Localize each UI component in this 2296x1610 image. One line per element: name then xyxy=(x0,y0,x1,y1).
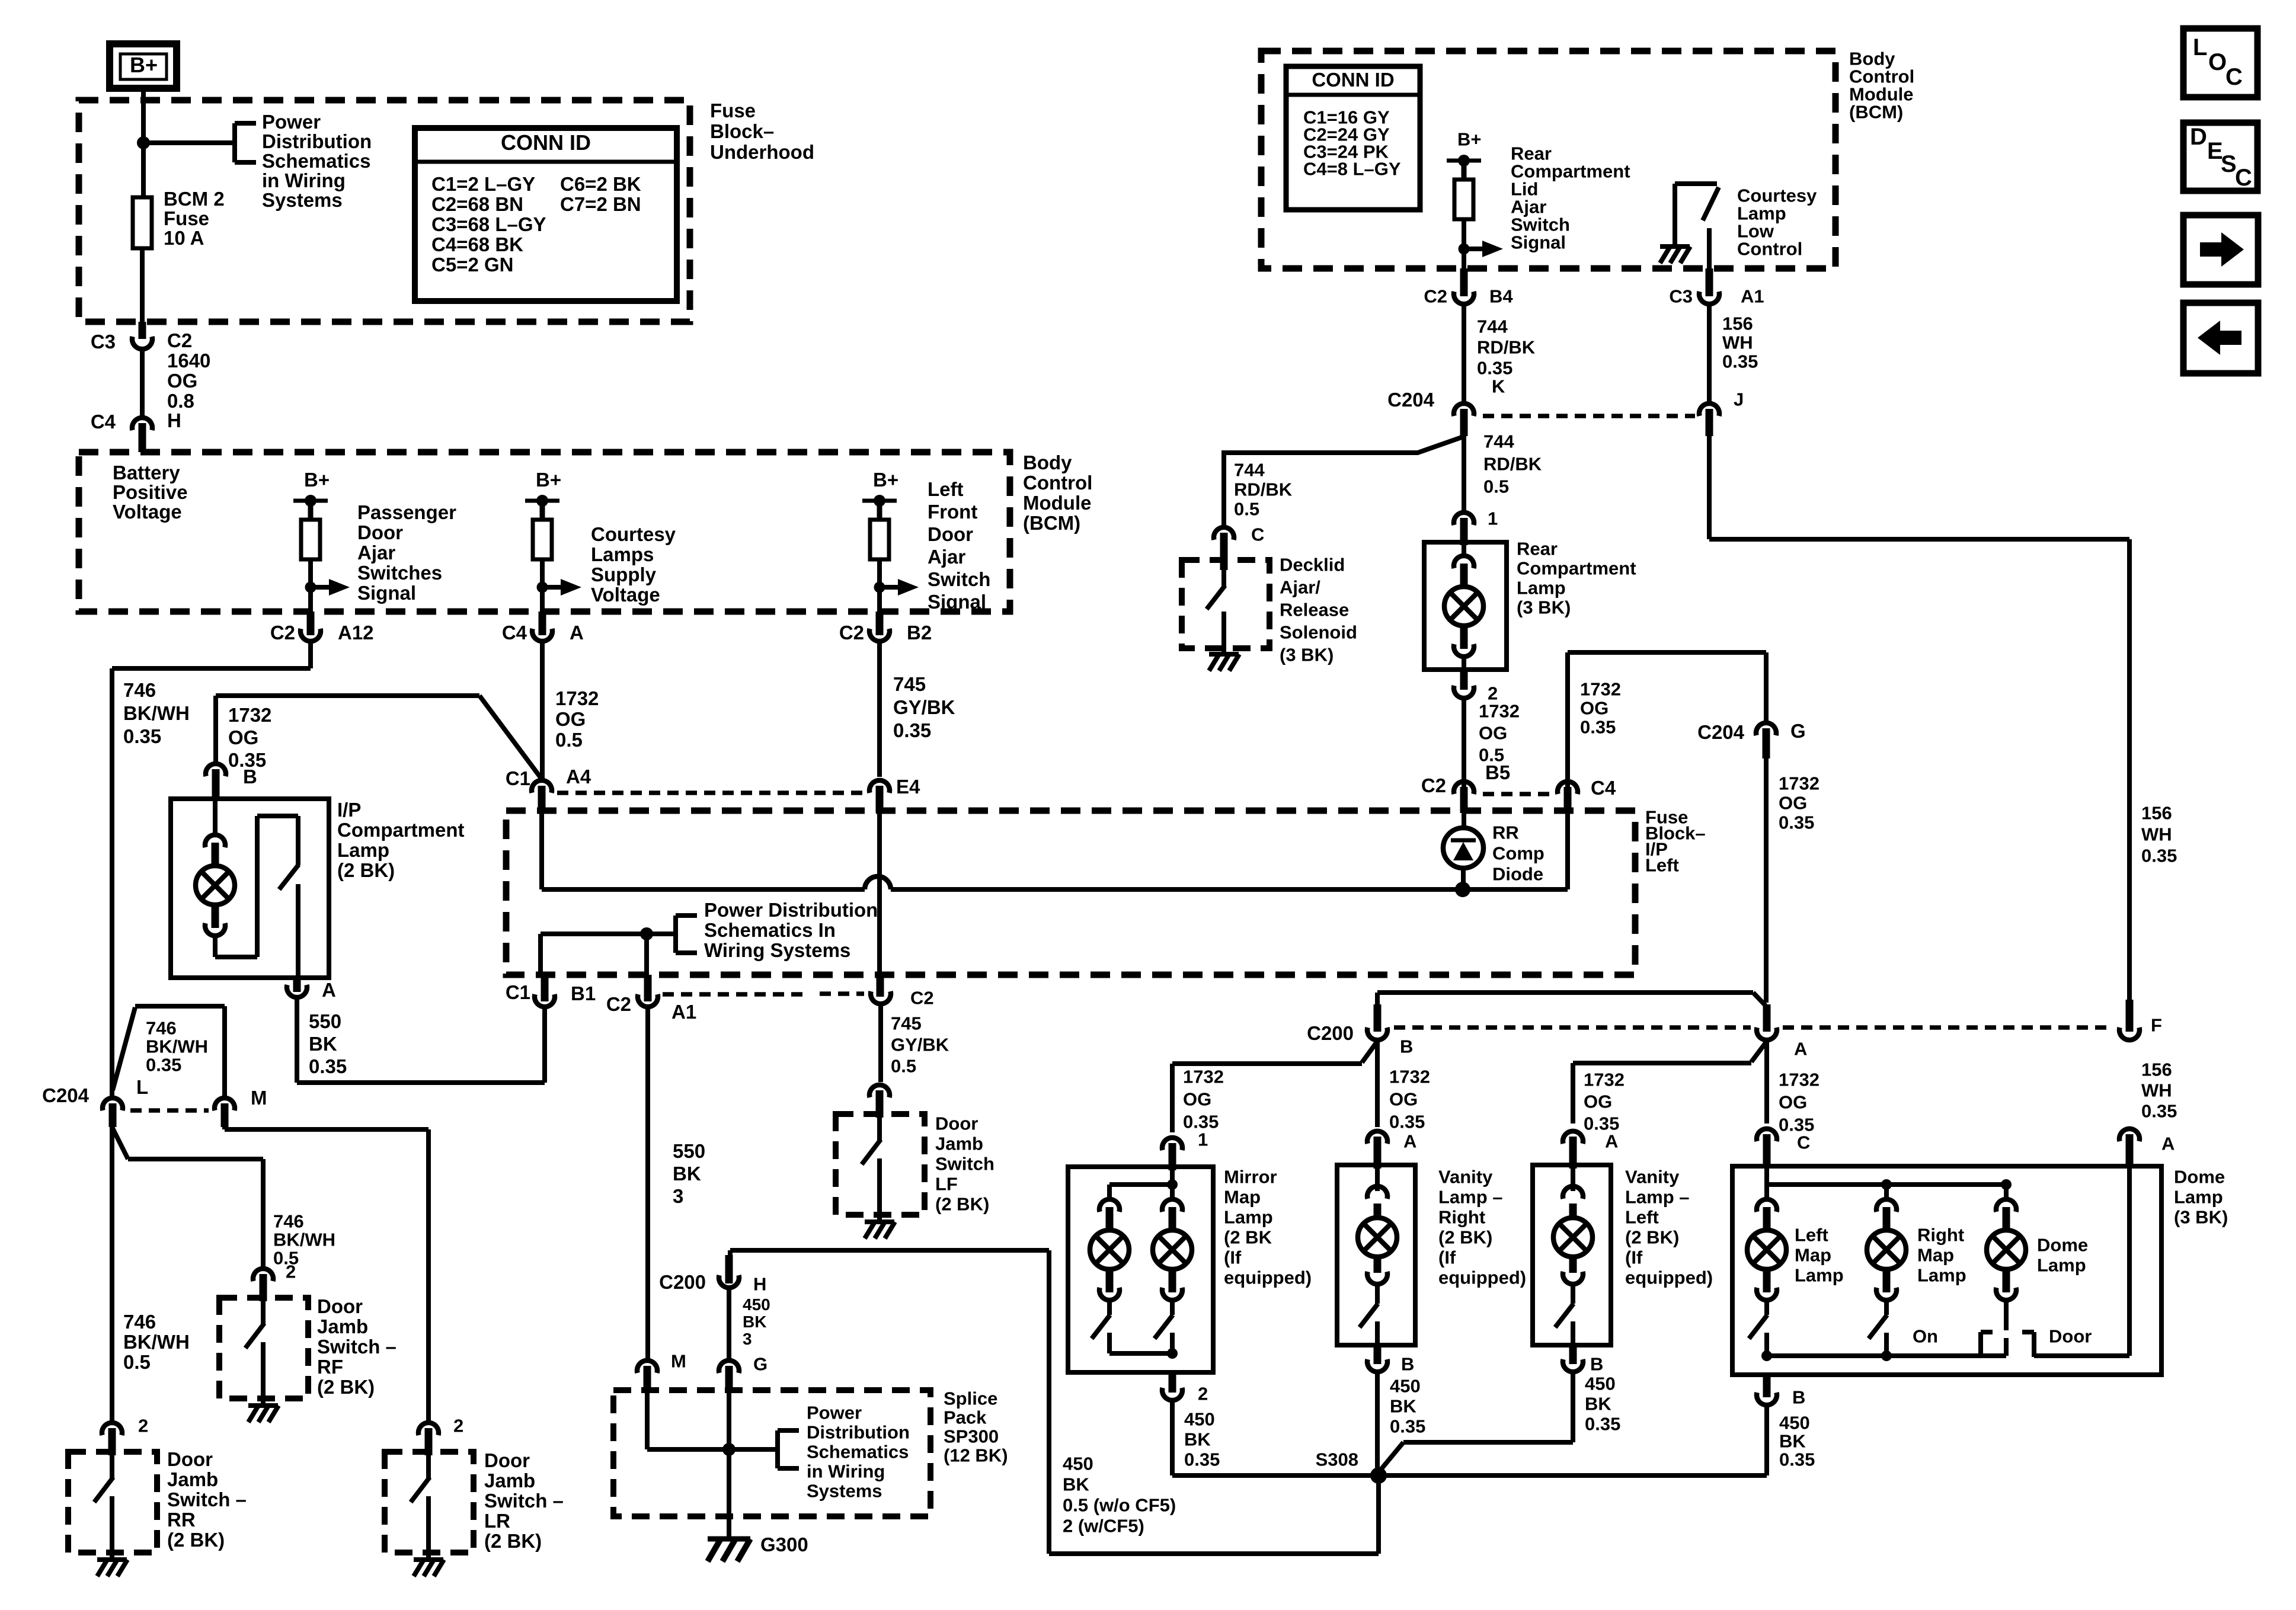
svg-text:C2: C2 xyxy=(1424,286,1447,306)
svg-text:C204: C204 xyxy=(1387,389,1435,411)
svg-text:B: B xyxy=(1400,1036,1413,1057)
svg-text:B+: B+ xyxy=(536,469,561,491)
svg-text:C2: C2 xyxy=(839,622,864,644)
svg-text:2: 2 xyxy=(138,1415,148,1436)
svg-text:C4: C4 xyxy=(1591,777,1616,799)
svg-text:A: A xyxy=(322,979,336,1001)
svg-text:H: H xyxy=(167,409,181,431)
svg-text:2: 2 xyxy=(453,1415,463,1436)
svg-text:Door: Door xyxy=(2049,1326,2092,1346)
svg-text:F: F xyxy=(2151,1014,2162,1035)
svg-text:C2: C2 xyxy=(270,622,295,644)
svg-text:S: S xyxy=(2221,151,2237,177)
svg-text:A12: A12 xyxy=(338,622,374,644)
svg-text:B1: B1 xyxy=(571,982,596,1004)
svg-text:G300: G300 xyxy=(760,1534,808,1555)
svg-text:E4: E4 xyxy=(896,776,920,798)
svg-text:C204: C204 xyxy=(42,1084,89,1106)
svg-text:2: 2 xyxy=(1198,1383,1208,1404)
svg-text:C2: C2 xyxy=(606,993,631,1015)
svg-text:C1: C1 xyxy=(506,767,530,789)
svg-text:1: 1 xyxy=(1488,508,1498,529)
svg-text:A: A xyxy=(570,622,584,644)
svg-text:2: 2 xyxy=(286,1261,296,1282)
svg-text:B+: B+ xyxy=(304,469,330,491)
svg-text:B: B xyxy=(1401,1353,1414,1374)
svg-text:C1: C1 xyxy=(506,981,530,1003)
svg-text:C: C xyxy=(2235,165,2252,191)
svg-text:G: G xyxy=(753,1353,768,1374)
svg-text:S308: S308 xyxy=(1316,1449,1358,1470)
svg-text:A1: A1 xyxy=(1741,286,1764,306)
svg-text:B: B xyxy=(1590,1353,1603,1374)
svg-text:C2: C2 xyxy=(1421,774,1446,796)
svg-text:L: L xyxy=(136,1076,148,1098)
svg-text:On: On xyxy=(1913,1326,1938,1346)
svg-text:C: C xyxy=(1251,524,1264,545)
svg-text:C: C xyxy=(1797,1132,1810,1153)
svg-text:L: L xyxy=(2193,34,2207,60)
svg-text:C4: C4 xyxy=(502,622,527,644)
svg-text:A: A xyxy=(1794,1038,1807,1059)
svg-text:156WH0.35: 156WH0.35 xyxy=(2141,802,2177,866)
svg-text:C3: C3 xyxy=(1669,286,1693,306)
svg-text:J: J xyxy=(1734,389,1744,409)
svg-text:1: 1 xyxy=(1198,1129,1208,1150)
svg-text:B: B xyxy=(1792,1387,1805,1407)
svg-text:B2: B2 xyxy=(907,622,932,644)
svg-text:M: M xyxy=(251,1087,267,1109)
svg-text:A: A xyxy=(1403,1131,1416,1151)
svg-text:C204: C204 xyxy=(1697,721,1745,743)
svg-text:CONN ID: CONN ID xyxy=(1312,69,1394,91)
svg-text:156WH0.35: 156WH0.35 xyxy=(2141,1059,2177,1121)
svg-text:A1: A1 xyxy=(671,1001,696,1023)
svg-text:O: O xyxy=(2208,49,2227,75)
svg-text:A4: A4 xyxy=(566,766,591,788)
svg-text:K: K xyxy=(1492,376,1505,396)
svg-text:B+: B+ xyxy=(1457,129,1482,149)
svg-text:DomeLamp: DomeLamp xyxy=(2037,1234,2088,1275)
svg-text:H: H xyxy=(753,1273,766,1294)
svg-text:BatteryPositiveVoltage: BatteryPositiveVoltage xyxy=(113,462,188,523)
svg-text:C3: C3 xyxy=(91,331,116,353)
svg-text:B+: B+ xyxy=(130,53,158,77)
svg-text:DomeLamp(3 BK): DomeLamp(3 BK) xyxy=(2174,1166,2228,1227)
svg-text:156WH0.35: 156WH0.35 xyxy=(1722,313,1758,372)
svg-text:M: M xyxy=(671,1350,686,1371)
svg-text:C200: C200 xyxy=(659,1271,706,1293)
svg-text:C2: C2 xyxy=(910,987,934,1008)
svg-text:C4: C4 xyxy=(91,411,116,433)
svg-text:B4: B4 xyxy=(1489,286,1513,306)
svg-text:D: D xyxy=(2190,124,2207,150)
svg-text:B+: B+ xyxy=(873,469,898,491)
svg-text:C6=2 BKC7=2 BN: C6=2 BKC7=2 BN xyxy=(560,173,641,215)
svg-text:G: G xyxy=(1790,720,1806,742)
svg-text:C: C xyxy=(2225,64,2243,90)
svg-text:A: A xyxy=(1605,1131,1618,1151)
svg-text:C200: C200 xyxy=(1307,1022,1354,1044)
svg-text:A: A xyxy=(2161,1133,2175,1154)
svg-text:C1=16 GYC2=24 GYC3=24 PKC4=8 L: C1=16 GYC2=24 GYC3=24 PKC4=8 L–GY xyxy=(1303,107,1401,179)
svg-text:CONN ID: CONN ID xyxy=(501,130,591,155)
